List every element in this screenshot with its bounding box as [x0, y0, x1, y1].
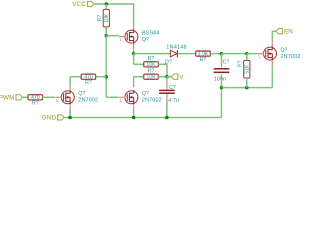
wire gate node to BSS84 gate [106, 35, 119, 37]
svg-text:1: 1 [56, 98, 59, 103]
svg-text:VCC: VCC [72, 1, 86, 8]
svg-text:V: V [179, 74, 184, 81]
resistor R? 10K upper [144, 56, 159, 68]
svg-text:C?: C? [169, 85, 176, 91]
hierarchical label EN [276, 28, 293, 35]
wire drain node to diode [134, 53, 171, 55]
wire R 3.9K to RC node [210, 53, 221, 55]
svg-text:10K: 10K [146, 62, 156, 68]
wire BSS84 drain to node [133, 50, 135, 53]
wire node V to C 4.7u [166, 77, 168, 80]
resistor R? 10K pull-up [97, 9, 110, 27]
capacitor C? 100n [214, 59, 230, 82]
wire left Q drain up [69, 77, 71, 87]
wire bottom 10K right lead [158, 76, 167, 78]
wire C 100n bottom [221, 81, 223, 88]
pin C 4.7u bottom [166, 94, 168, 102]
wire bottom 10K to middle Q drain [133, 77, 135, 84]
wire RC node to R node [222, 53, 247, 55]
junction GND left Q [68, 116, 72, 120]
resistor R? 470 feedback [81, 74, 96, 86]
pin right Q source [271, 61, 273, 67]
transistor Q? 2N7002 right [258, 47, 301, 61]
junction node V [165, 75, 169, 79]
svg-text:51K: 51K [244, 64, 250, 74]
svg-text:Q?: Q? [142, 91, 149, 97]
capacitor C? 4.7u [159, 85, 179, 104]
wire GND rail up to mid rail [221, 88, 223, 118]
transistor Q? 2N7002 left [55, 90, 98, 104]
hierarchical label PWM [0, 95, 22, 102]
wire drain node down [133, 54, 135, 65]
resistor R? 3.9K [196, 51, 211, 63]
wire to label V [167, 76, 171, 78]
wire right Q source down [271, 67, 273, 88]
pin middle Q drain upper [133, 83, 135, 87]
junction VCC-R pullup [105, 2, 109, 6]
junction GND middle Q [132, 116, 136, 120]
svg-text:BSS84: BSS84 [142, 30, 160, 36]
wire R470 to left Q gate [42, 96, 55, 98]
wire gate node vertical [105, 36, 107, 98]
pin middle Q source [133, 105, 135, 109]
svg-text:R?: R? [148, 69, 155, 75]
wire to EN [272, 30, 276, 32]
pin BSS84 source [133, 26, 135, 30]
svg-text:R?: R? [200, 57, 207, 63]
svg-text:1: 1 [258, 54, 261, 59]
svg-text:R?: R? [85, 80, 92, 86]
pin C 100n top [221, 62, 223, 68]
wire drain to 470 fb [70, 76, 81, 78]
wire diode to R 3.9K [178, 53, 196, 55]
junction BSS84 gate node [105, 34, 109, 38]
hierarchical label V [171, 74, 184, 81]
resistor R? 10K lower [144, 69, 159, 81]
junction at R 51K top [245, 52, 249, 56]
wire VCC down to BSS84 source [133, 4, 135, 26]
junction 470 feedback tap [105, 75, 109, 79]
pin left Q drain upper [69, 86, 71, 90]
wire middle Q source to GND [133, 109, 135, 118]
wire 470 fb to vertical [96, 76, 107, 78]
svg-text:EN: EN [284, 28, 293, 35]
wire xC vertical [166, 64, 168, 76]
wire VCC to R1 top [105, 4, 107, 9]
wire PWM to R 470 [22, 96, 29, 98]
svg-text:R?: R? [32, 101, 39, 107]
pin C 100n bottom [221, 74, 223, 80]
svg-text:10K: 10K [146, 75, 156, 81]
wire right Q drain up [271, 31, 273, 41]
wire C 4.7u to GND rail [166, 102, 168, 118]
svg-text:2N7002: 2N7002 [281, 54, 301, 60]
pin right Q drain [271, 41, 273, 47]
wire R 51K top lead [246, 54, 248, 61]
svg-text:Q?: Q? [78, 91, 85, 97]
svg-text:2N7002: 2N7002 [78, 98, 98, 104]
pin left Q source [69, 105, 71, 109]
junction GND C4.7u [165, 116, 169, 120]
hierarchical label GND [42, 115, 64, 122]
svg-text:1: 1 [119, 98, 122, 103]
svg-text:2N7002: 2N7002 [142, 98, 162, 104]
wire to top 10K [134, 63, 145, 65]
wire mid rail [222, 87, 273, 89]
resistor R? 51K [238, 60, 251, 78]
svg-text:100n: 100n [214, 76, 226, 82]
pin C 4.7u top [166, 80, 168, 90]
svg-text:R?: R? [238, 60, 244, 67]
svg-text:4.7u: 4.7u [168, 98, 179, 104]
wire top 10K to xC [158, 63, 167, 65]
pin right Q gate lead [257, 53, 263, 55]
svg-text:10K: 10K [104, 13, 110, 23]
wire R 51K bottom lead [246, 78, 248, 88]
wire bottom 10K left lead [134, 76, 145, 78]
hierarchical label VCC [72, 1, 94, 8]
svg-text:Q?: Q? [281, 47, 288, 53]
svg-text:R?: R? [97, 15, 103, 22]
svg-text:Q?: Q? [142, 37, 149, 43]
wire VCC rail [94, 3, 134, 5]
svg-text:R?: R? [148, 56, 155, 62]
svg-text:PWM: PWM [0, 95, 15, 102]
wire left Q source to GND [69, 109, 71, 118]
wire to right Q gate [247, 53, 257, 55]
svg-text:C?: C? [223, 59, 230, 65]
wire R1 bottom to gate node [105, 27, 107, 36]
diode D? 1N4148 [165, 44, 187, 65]
pin BSS84 drain [133, 44, 135, 51]
junction mid rail at C100n [220, 86, 224, 90]
wire node to C 100n [221, 54, 223, 62]
transistor Q? 2N7002 middle [119, 90, 162, 104]
resistor R? 470 series [28, 95, 43, 107]
wire to middle Q gate [106, 96, 118, 98]
svg-text:1N4148: 1N4148 [166, 44, 187, 50]
junction mid rail at R 51K [245, 86, 249, 90]
junction RC node at C100n [220, 52, 224, 56]
svg-text:1: 1 [119, 37, 122, 42]
transistor Q? BSS84 (P-MOSFET) [119, 30, 160, 44]
junction drain node [132, 52, 136, 56]
svg-text:GND: GND [42, 115, 57, 121]
wire GND rail [64, 117, 221, 119]
